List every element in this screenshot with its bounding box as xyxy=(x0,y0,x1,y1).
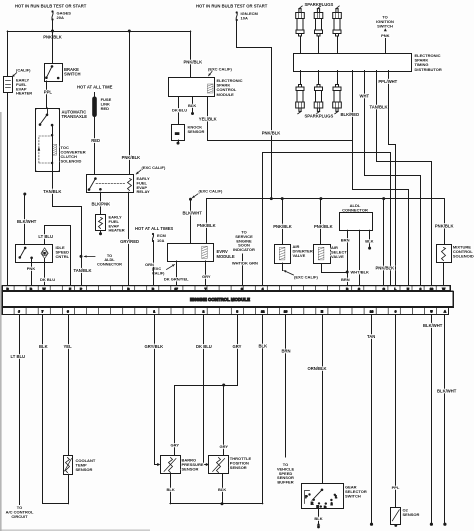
label ELECTRONIC SPARK TIMING DISTRIBUTOR xyxy=(415,53,442,72)
label TO SERVICE ENGINE SOON INDICATOR xyxy=(233,230,255,253)
svg-text:(EXC CALIF): (EXC CALIF) xyxy=(208,66,232,71)
svg-text:S: S xyxy=(358,287,360,291)
node junction H2 / air diverter xyxy=(281,197,284,200)
label BLK/WHT idle xyxy=(17,219,37,224)
node o2 sensor terminal xyxy=(394,524,397,527)
svg-text:BLK/RED: BLK/RED xyxy=(341,112,360,117)
label PPL xyxy=(44,90,53,95)
label BLK baro xyxy=(167,487,175,492)
svg-text:W: W xyxy=(43,287,46,291)
early fuel evap relay box xyxy=(87,175,134,193)
label ORN/BLK xyxy=(308,366,327,371)
svg-text:GRY: GRY xyxy=(233,344,242,349)
arrow exc calif to stub dot xyxy=(192,194,198,198)
svg-text:P: P xyxy=(80,287,82,291)
wire YEL pin 3 to coolant sensor xyxy=(68,315,70,456)
coolant temp sensor box xyxy=(64,456,73,475)
brake switch B1 xyxy=(45,64,63,82)
label LT BLU bottom xyxy=(11,354,26,359)
svg-text:BLK: BLK xyxy=(365,239,373,244)
label GEAR SELECTOR SWITCH xyxy=(345,485,367,499)
label HOT AT ALL TIMES xyxy=(135,226,173,231)
svg-text:(EXC CALIF): (EXC CALIF) xyxy=(142,165,166,170)
svg-text:DK BLU: DK BLU xyxy=(196,344,212,349)
idle switch xyxy=(19,247,33,260)
svg-text:PNK/BLK: PNK/BLK xyxy=(184,59,203,64)
wire DK GRN/YEL evrv to ECM xyxy=(176,261,178,286)
wire air diverter bottom stub xyxy=(282,263,284,270)
arrow exc calif to dkgrnyel wire xyxy=(167,265,175,270)
tcc dashed actuator link xyxy=(38,136,53,163)
wire GRY/BLK pin to baro sensor xyxy=(155,315,161,467)
arrow ignition feed xyxy=(384,28,387,31)
wire DK BLU idle to ECM xyxy=(44,259,46,286)
fuse IGN-ECM 10A xyxy=(236,11,259,21)
label BLK tps xyxy=(218,487,226,492)
wire BRN pin 16 to speed buffer xyxy=(285,315,287,458)
svg-text:PPL: PPL xyxy=(44,90,53,95)
wire jumper ECM pin to pin xyxy=(263,153,391,286)
svg-text:ENGINE CONTROL MODULE: ENGINE CONTROL MODULE xyxy=(190,297,250,302)
svg-text:LT BLU: LT BLU xyxy=(38,234,53,239)
wire BLK/WHT pin A down xyxy=(443,315,446,526)
tcc switch contact xyxy=(39,108,49,126)
label GRY/BLK xyxy=(145,344,164,349)
engine control module connector body xyxy=(2,286,454,315)
wire YEL/BLK esc to blk/red net xyxy=(208,97,353,141)
label KNOCK SENSOR xyxy=(188,125,205,134)
svg-text:BLK: BLK xyxy=(188,103,196,108)
tcc solenoid coil xyxy=(53,145,57,156)
label IDLE SPEED CNTRL xyxy=(56,245,70,259)
wire top rail xyxy=(7,31,191,33)
wire ground bus xyxy=(170,503,263,505)
wire air diverter feed xyxy=(282,199,284,245)
svg-text:DK BLU: DK BLU xyxy=(172,107,187,112)
arrow exc calif to ESC xyxy=(209,72,213,76)
wire distributor to plug4 xyxy=(300,71,302,85)
label BLK pin22 xyxy=(259,344,268,349)
label PPL/WHT xyxy=(378,79,397,84)
label THROTTLE POSITION SENSOR xyxy=(230,456,252,470)
label (EXC CALIF) near evrv stub xyxy=(199,189,223,194)
label WHT/BLK xyxy=(351,270,370,275)
svg-text:VALVE: VALVE xyxy=(293,253,306,258)
label ENGINE CONTROL MODULE xyxy=(190,297,250,302)
wire LT BLU pin J to a/c control xyxy=(19,315,21,505)
air select valve box xyxy=(314,245,331,264)
o2 sensor box xyxy=(391,508,401,525)
label GRY tps xyxy=(220,444,229,449)
label PNK/BLK under gages fuse xyxy=(43,34,62,39)
wire PNK/BLK ecm pin drop xyxy=(383,199,385,286)
node (EXC CALIF) stub dot xyxy=(189,198,192,201)
svg-text:YEL/BLK: YEL/BLK xyxy=(199,116,217,121)
arrow to aldl connector note xyxy=(84,255,95,258)
early fuel evap heater 2 xyxy=(96,215,106,231)
wire air select feed xyxy=(320,199,322,245)
wire GRY evrv to ECM xyxy=(205,261,207,286)
aldl connector box xyxy=(340,213,373,231)
svg-text:BLK: BLK xyxy=(259,344,268,349)
svg-text:U: U xyxy=(407,287,409,291)
label BLK esc xyxy=(188,103,196,108)
scan edge left xyxy=(0,112,2,531)
svg-text:BLK/WHT: BLK/WHT xyxy=(183,210,203,215)
wire coolant sensor return xyxy=(68,474,70,504)
svg-text:BRN: BRN xyxy=(341,277,350,282)
label TAN/BLK transaxle xyxy=(43,189,61,194)
svg-text:16: 16 xyxy=(284,310,288,314)
throttle position sensor box xyxy=(209,456,229,474)
label PNK/BLK above ESC xyxy=(184,59,203,64)
svg-text:DK GRN/YEL: DK GRN/YEL xyxy=(164,277,189,282)
svg-text:PNK: PNK xyxy=(27,266,36,271)
node junction H2 / ecm pin xyxy=(382,197,385,200)
label BRN upper xyxy=(341,237,350,242)
svg-text:MODULE: MODULE xyxy=(217,92,235,97)
label BLK gear xyxy=(314,516,322,521)
svg-text:YEL: YEL xyxy=(64,344,73,349)
svg-text:BLK: BLK xyxy=(39,344,48,349)
wire GRY branch to tps xyxy=(223,385,225,456)
svg-text:BLK/PNK: BLK/PNK xyxy=(92,201,111,206)
wire mcs to ECM xyxy=(443,263,445,286)
svg-text:PNK/BLK: PNK/BLK xyxy=(197,223,216,228)
svg-text:2: 2 xyxy=(331,502,333,506)
svg-text:BLK/WHT: BLK/WHT xyxy=(17,219,37,224)
node junction H2 / air select xyxy=(319,197,322,200)
label YEL xyxy=(64,344,73,349)
label BLK/WHT pinA xyxy=(437,388,457,393)
svg-text:(EXC CALIF): (EXC CALIF) xyxy=(199,189,223,194)
svg-text:SPARKPLUGS: SPARKPLUGS xyxy=(305,113,334,118)
label O2 SENSOR xyxy=(403,508,420,517)
label TAN/BLK distributor xyxy=(370,105,388,110)
wire LT BLU bridge xyxy=(45,226,71,286)
svg-text:WHT/DK GRN: WHT/DK GRN xyxy=(232,260,258,265)
svg-text:PNK/BLK: PNK/BLK xyxy=(376,265,395,270)
label GRY baro xyxy=(171,443,180,448)
label AIR SELECT VALVE xyxy=(331,245,347,259)
svg-text:TAN: TAN xyxy=(367,334,375,339)
label BLK/WHT pinU xyxy=(423,323,443,328)
label GRY evrv xyxy=(202,274,211,279)
svg-text:PNK/BLK: PNK/BLK xyxy=(314,224,333,229)
wire WHT distributor staircase to ECM xyxy=(365,71,421,286)
ECM top pin letters xyxy=(7,287,446,291)
svg-text:SENSOR: SENSOR xyxy=(403,512,420,517)
wire DK BLU esc to knock sensor xyxy=(178,97,180,125)
svg-text:SENSOR: SENSOR xyxy=(76,467,93,472)
early fuel evap heater (calif) left xyxy=(4,77,13,93)
sparkplug bottom 2 xyxy=(314,85,323,114)
electronic spark timing distributor box xyxy=(294,54,412,72)
svg-text:HOT AT ALL TIMES: HOT AT ALL TIMES xyxy=(135,226,173,231)
label PNK/BLK on ign-ecm wire xyxy=(262,130,281,135)
label BLK/WHT evrv xyxy=(183,210,203,215)
svg-text:SENSOR: SENSOR xyxy=(230,465,247,470)
wire PNK/BLK rail to efe relay coil xyxy=(129,31,131,174)
wire PNK/BLK fuse IGN-ECM down xyxy=(237,21,272,199)
label BLK aldl xyxy=(365,239,373,244)
header HOT IN RUN BULB TEST OR START (right) xyxy=(196,4,268,9)
wire TAN/BLK transaxle to ECM xyxy=(53,172,82,286)
svg-text:MODULE: MODULE xyxy=(217,254,235,259)
svg-text:GRY: GRY xyxy=(202,274,211,279)
wire BLK/WHT to idle speed control xyxy=(24,194,26,245)
svg-text:F: F xyxy=(69,287,71,291)
svg-text:ORN: ORN xyxy=(145,262,154,267)
svg-text:14: 14 xyxy=(370,310,374,314)
wire PNK/BLK H2 to mixture control solenoid xyxy=(444,199,446,245)
svg-text:CONNECTOR: CONNECTOR xyxy=(97,261,122,266)
wire ORN/BLK pin to gear selector xyxy=(322,315,324,484)
wire plug3 to distributor xyxy=(337,36,339,53)
fuse ECM 10A xyxy=(152,233,167,243)
svg-text:10: 10 xyxy=(430,287,434,291)
svg-text:LT BLU: LT BLU xyxy=(11,354,26,359)
barro pressure sensor box xyxy=(161,456,181,474)
svg-text:CNTRL: CNTRL xyxy=(56,254,70,259)
svg-text:PNK/BLK: PNK/BLK xyxy=(262,130,281,135)
svg-text:CONNECTOR: CONNECTOR xyxy=(342,207,368,212)
svg-text:DK BLU: DK BLU xyxy=(40,277,55,282)
wire GRY/RED relay to ECM xyxy=(128,192,130,285)
label AIR DIVERTER VALVE xyxy=(293,244,313,258)
label (EXC CALIF) adv xyxy=(294,274,318,279)
svg-text:SPARKPLUGS: SPARKPLUGS xyxy=(305,2,334,7)
node junction tps / ground bus xyxy=(221,502,224,505)
label DK BLU idle xyxy=(40,277,55,282)
svg-text:HEATER: HEATER xyxy=(16,91,32,96)
label GRY/RED xyxy=(120,239,139,244)
svg-text:TAN/BLK: TAN/BLK xyxy=(370,105,388,110)
wire WHT/BLK aldl to ECM xyxy=(359,230,361,285)
node junction top rail / efe relay coil xyxy=(128,30,131,33)
label TO ALDL CONNECTOR xyxy=(97,253,122,266)
svg-text:(CALIF): (CALIF) xyxy=(16,68,31,73)
label EARLY FUEL EVAP HEATER (mid) xyxy=(109,215,125,233)
wire PNK/BLK rail to ESC xyxy=(190,31,192,78)
label YEL/BLK xyxy=(199,116,217,121)
wire PPL/WHT distributor staircase to ECM xyxy=(389,71,396,286)
idle speed control box xyxy=(16,245,53,263)
label TAN/BLK lower xyxy=(74,268,92,273)
label DK BLU bottom xyxy=(196,344,212,349)
label AUTOMATIC TRANSAXLE xyxy=(62,110,88,120)
gear selector rotary contacts xyxy=(305,489,338,510)
node junction brn / air select xyxy=(346,271,349,274)
svg-text:10A: 10A xyxy=(241,16,248,21)
node junction aldl tap xyxy=(80,255,83,258)
svg-text:PNK/BLK: PNK/BLK xyxy=(273,224,292,229)
svg-text:M: M xyxy=(44,253,46,255)
ground knock sensor xyxy=(177,140,180,145)
wire PNK ignition to distributor xyxy=(385,39,387,54)
wire PPL pin 9 to o2 sensor xyxy=(395,315,397,508)
wire fuse GAGES to top rail xyxy=(52,20,54,32)
svg-text:T: T xyxy=(205,287,207,291)
label (EXC CALIF) dk grn/yel xyxy=(152,267,165,275)
wire WHT/DK GRN to ECM xyxy=(242,254,244,286)
label COOLANT TEMP SENSOR xyxy=(76,458,96,472)
ground gear selector xyxy=(317,522,320,528)
wire RED fuse link to efe relay xyxy=(94,117,96,175)
svg-text:DISTRIBUTOR: DISTRIBUTOR xyxy=(415,67,442,72)
wire PNK/BLK H2 to EVRV xyxy=(206,199,208,244)
knock sensor box xyxy=(172,125,185,141)
svg-text:TRANSAXLE: TRANSAXLE xyxy=(62,114,88,119)
svg-text:HOT AT ALL TIME: HOT AT ALL TIME xyxy=(77,85,113,90)
svg-text:INDICATOR: INDICATOR xyxy=(233,247,255,252)
air diverter valve box xyxy=(275,245,291,264)
label LT BLU xyxy=(38,234,53,239)
svg-text:U: U xyxy=(430,310,432,314)
electronic spark control module box xyxy=(169,78,215,97)
idle motor xyxy=(41,248,48,259)
svg-text:GRY: GRY xyxy=(220,444,229,449)
label PPL o2 xyxy=(392,485,400,490)
wire BLK/RED distributor staircase to ECM xyxy=(353,71,409,286)
svg-text:BLK: BLK xyxy=(314,516,322,521)
label PNK/BLK asv xyxy=(314,224,333,229)
svg-text:TAN/BLK: TAN/BLK xyxy=(74,268,92,273)
label EARLY FUEL EVAP HEATER (left) xyxy=(16,78,32,96)
svg-text:22: 22 xyxy=(261,310,265,314)
wire BLK gear selector ground xyxy=(318,509,320,523)
fuse link RED bar xyxy=(92,93,97,118)
ECM bottom pin letters xyxy=(18,310,447,314)
arrow from (CALIF) to early fuel evap heater xyxy=(12,73,16,77)
node junction top rail / gages xyxy=(51,30,54,33)
svg-text:PPL/WHT: PPL/WHT xyxy=(378,79,397,84)
svg-text:17: 17 xyxy=(175,287,179,291)
label BLK/RED xyxy=(341,112,360,117)
label (CALIF) xyxy=(16,68,31,73)
wire BLK/WHT pin U down xyxy=(430,315,433,526)
node blk/wht stub dot xyxy=(23,193,26,196)
wire TAN pin 14 down xyxy=(370,315,373,526)
sparkplug top 2 xyxy=(314,6,323,36)
label BRAKE SWITCH xyxy=(64,67,81,77)
wire plug2 to distributor xyxy=(318,36,320,53)
wire BLK baro to ground bus xyxy=(170,474,172,504)
label GRY pin xyxy=(233,344,242,349)
label PNK/BLK pin drop xyxy=(376,265,395,270)
label PNK idle xyxy=(27,266,36,271)
gear selector switch box xyxy=(302,484,344,509)
label ALDL CONNECTOR xyxy=(342,203,368,212)
label BARRO PRESSURE SENSOR xyxy=(182,458,204,472)
label ORN xyxy=(145,262,154,267)
efe relay switch xyxy=(88,177,102,191)
svg-text:ORN/BLK: ORN/BLK xyxy=(308,366,327,371)
label EARLY FUEL EVAP RELAY xyxy=(137,176,151,194)
label TO A/C CONTROL CIRCUIT xyxy=(6,505,34,519)
svg-text:PNK: PNK xyxy=(381,33,390,38)
svg-text:SOLENOID: SOLENOID xyxy=(61,159,82,164)
svg-text:PNK/BLK: PNK/BLK xyxy=(122,155,141,160)
wire distributor to plug6 xyxy=(337,71,339,85)
efe relay dashed link xyxy=(96,182,126,184)
label PNK ignition xyxy=(381,33,390,38)
arrow exc calif to efe relay xyxy=(136,170,141,174)
efe relay coil xyxy=(128,179,132,191)
label BRN pin16 xyxy=(282,349,291,354)
svg-text:GRY/BLK: GRY/BLK xyxy=(145,344,164,349)
evrv module box xyxy=(168,244,214,262)
svg-text:HEATER: HEATER xyxy=(109,228,125,233)
label SPARKPLUGS bottom xyxy=(305,113,334,118)
svg-text:(EXC CALIF): (EXC CALIF) xyxy=(294,274,318,279)
svg-text:VALVE: VALVE xyxy=(331,254,344,259)
fuse GAGES 20A xyxy=(51,10,71,20)
svg-text:PNK/BLK: PNK/BLK xyxy=(435,223,454,228)
sparkplug bottom 3 xyxy=(333,85,342,114)
wire PPL brake switch to transaxle xyxy=(46,81,48,108)
mixture control solenoid box xyxy=(437,245,452,263)
label DK BLU esc xyxy=(172,107,187,112)
scan edge bottom xyxy=(0,529,150,531)
svg-text:BUFFER: BUFFER xyxy=(277,480,293,485)
wire ORN ecm fuse to ECM xyxy=(153,241,155,286)
svg-text:BRN: BRN xyxy=(341,237,350,242)
label SPARKPLUGS top xyxy=(305,2,334,7)
node junction H2 / fuse feed xyxy=(270,197,273,200)
svg-text:SWITCH: SWITCH xyxy=(377,23,393,28)
label HOT AT ALL TIME xyxy=(77,85,113,90)
wire BLK aldl ground stub xyxy=(368,230,371,249)
label WHT xyxy=(360,94,370,99)
svg-text:SWITCH: SWITCH xyxy=(345,494,361,499)
wire BLK tps to ground bus xyxy=(222,474,224,504)
sparkplug top 1 xyxy=(296,6,305,36)
svg-text:RELAY: RELAY xyxy=(137,189,151,194)
label (EXC CALIF) efe relay xyxy=(142,165,166,170)
svg-text:BLK/WHT: BLK/WHT xyxy=(423,323,443,328)
wire BLK/WHT stub to EVRV xyxy=(190,199,192,243)
label WHT/DK GRN xyxy=(232,260,258,265)
svg-text:GRY: GRY xyxy=(171,443,180,448)
wire BLK pin 7 to sensor return xyxy=(43,315,69,504)
header HOT IN RUN BULB TEST OR START (left) xyxy=(15,4,87,9)
label MIXTURE CONTROL SOLENOID xyxy=(453,244,474,258)
label TO VEHICLE SPEED SENSOR BUFFER xyxy=(277,462,295,485)
svg-text:BLK: BLK xyxy=(167,487,175,492)
wire distributor to plug5 xyxy=(318,71,320,85)
sparkplug bottom 1 xyxy=(296,85,305,114)
wire PNK/BLK bus H2 xyxy=(207,198,445,200)
label PNK/BLK evrv xyxy=(197,223,216,228)
label ELECTRONIC SPARK CONTROL MODULE xyxy=(217,78,243,97)
sparkplug top 3 xyxy=(333,6,342,36)
label PNK/BLK on relay coil wire xyxy=(122,155,141,160)
svg-text:BRN: BRN xyxy=(282,349,291,354)
label BLK/PNK xyxy=(92,201,111,206)
svg-text:H: H xyxy=(321,310,323,314)
wire plug1 to distributor xyxy=(300,36,302,53)
label BRN lower xyxy=(341,277,350,282)
svg-text:SENSOR: SENSOR xyxy=(188,129,205,134)
svg-text:10A: 10A xyxy=(157,238,164,243)
svg-text:W: W xyxy=(442,287,445,291)
wire TAN/BLK distributor staircase to ECM xyxy=(377,71,432,286)
svg-text:SOLENOID: SOLENOID xyxy=(453,253,474,258)
wire BLK esc ground stub xyxy=(191,97,194,116)
automatic transaxle box xyxy=(36,109,60,172)
wire BRN aldl to ECM xyxy=(347,230,349,285)
